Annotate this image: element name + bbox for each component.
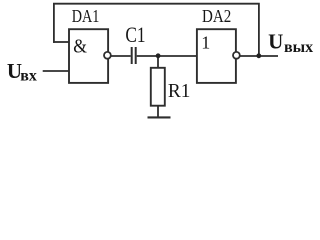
svg-text:DA1: DA1 xyxy=(72,6,100,26)
svg-text:вых: вых xyxy=(284,39,313,56)
svg-text:1: 1 xyxy=(201,33,210,53)
svg-text:R1: R1 xyxy=(168,80,191,102)
svg-text:вх: вх xyxy=(20,68,37,85)
svg-text:&: & xyxy=(73,37,87,58)
svg-text:U: U xyxy=(268,29,283,53)
svg-text:DA2: DA2 xyxy=(202,6,231,26)
svg-text:C1: C1 xyxy=(125,22,145,47)
